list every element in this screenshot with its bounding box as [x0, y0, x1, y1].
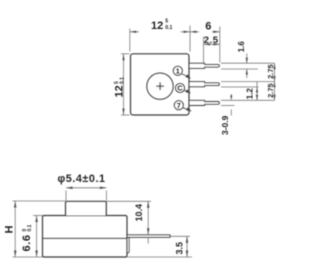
svg-text:6: 6 — [205, 21, 211, 33]
svg-text:3-0.9: 3-0.9 — [220, 115, 230, 135]
svg-text:10.4: 10.4 — [134, 204, 144, 222]
svg-text:1: 1 — [176, 66, 180, 75]
svg-text:6.6: 6.6 — [21, 234, 33, 251]
svg-text:5: 5 — [165, 19, 168, 25]
svg-text:7: 7 — [177, 101, 181, 110]
svg-text:2.75: 2.75 — [266, 83, 275, 97]
svg-text:H: H — [4, 226, 16, 234]
svg-text:0.1: 0.1 — [120, 77, 126, 84]
svg-text:12: 12 — [114, 85, 126, 97]
svg-text:1.6: 1.6 — [237, 41, 246, 53]
svg-text:0.1: 0.1 — [165, 25, 172, 31]
svg-text:3.5: 3.5 — [175, 242, 185, 255]
svg-text:C: C — [177, 84, 182, 93]
svg-text:2.5: 2.5 — [204, 35, 219, 46]
svg-text:2.75: 2.75 — [266, 64, 275, 78]
svg-text:1.2: 1.2 — [246, 88, 255, 100]
svg-text:0.1: 0.1 — [27, 224, 33, 231]
svg-text:φ5.4±0.1: φ5.4±0.1 — [58, 173, 106, 185]
svg-text:12: 12 — [151, 20, 163, 32]
